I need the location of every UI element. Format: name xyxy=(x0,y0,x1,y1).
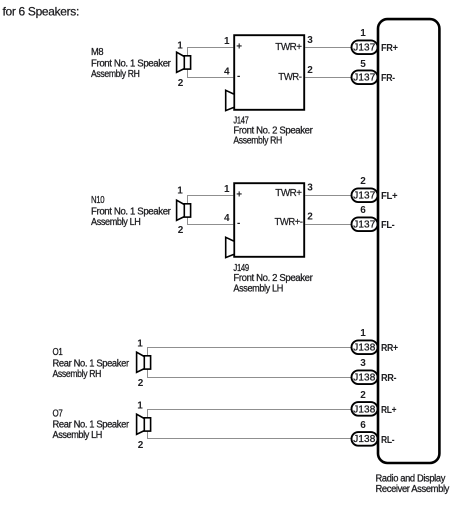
svg-text:1: 1 xyxy=(137,401,143,412)
svg-text:J138: J138 xyxy=(353,342,376,353)
svg-text:3: 3 xyxy=(307,35,313,46)
svg-text:1: 1 xyxy=(224,184,230,195)
svg-text:FL+: FL+ xyxy=(381,191,398,202)
svg-text:1: 1 xyxy=(177,41,183,52)
svg-text:+: + xyxy=(236,42,242,53)
svg-text:M8: M8 xyxy=(91,47,104,58)
svg-text:1: 1 xyxy=(224,36,230,47)
svg-text:J138: J138 xyxy=(353,434,376,445)
svg-text:J137: J137 xyxy=(353,219,376,230)
svg-text:J137: J137 xyxy=(353,72,376,83)
svg-text:J138: J138 xyxy=(353,404,376,415)
svg-text:2: 2 xyxy=(307,65,313,76)
svg-text:+: + xyxy=(236,190,242,201)
svg-text:2: 2 xyxy=(307,211,313,222)
svg-text:4: 4 xyxy=(224,213,230,224)
svg-text:N10: N10 xyxy=(91,195,105,206)
svg-text:Assembly LH: Assembly LH xyxy=(233,284,283,295)
svg-text:2: 2 xyxy=(138,440,144,451)
svg-text:TWR-: TWR- xyxy=(278,72,301,83)
svg-text:1: 1 xyxy=(360,328,366,339)
svg-text:FL-: FL- xyxy=(381,220,394,231)
svg-text:Rear No. 1 Speaker: Rear No. 1 Speaker xyxy=(53,419,130,430)
svg-text:RL-: RL- xyxy=(381,435,394,446)
svg-text:2: 2 xyxy=(178,225,184,236)
svg-text:Receiver Assembly: Receiver Assembly xyxy=(376,484,450,495)
svg-text:for 6 Speakers:: for 6 Speakers: xyxy=(3,5,80,19)
svg-text:FR-: FR- xyxy=(381,73,395,84)
svg-text:Assembly RH: Assembly RH xyxy=(233,136,282,147)
svg-text:J137: J137 xyxy=(353,190,376,201)
svg-text:1: 1 xyxy=(177,186,183,197)
svg-text:6: 6 xyxy=(360,205,366,216)
svg-text:2: 2 xyxy=(360,176,366,187)
svg-text:FR+: FR+ xyxy=(381,43,398,54)
svg-text:J137: J137 xyxy=(353,42,376,53)
svg-text:1: 1 xyxy=(137,339,143,350)
svg-text:3: 3 xyxy=(360,358,366,369)
svg-text:O1: O1 xyxy=(53,347,64,358)
svg-text:5: 5 xyxy=(360,59,366,70)
svg-text:Front No. 1 Speaker: Front No. 1 Speaker xyxy=(91,206,172,217)
svg-text:1: 1 xyxy=(360,28,366,39)
svg-text:O7: O7 xyxy=(53,408,64,419)
svg-text:2: 2 xyxy=(178,78,184,89)
svg-text:Assembly LH: Assembly LH xyxy=(91,217,141,228)
svg-text:Rear No. 1 Speaker: Rear No. 1 Speaker xyxy=(53,358,130,369)
svg-text:TWR+: TWR+ xyxy=(275,188,302,199)
svg-text:-: - xyxy=(237,218,240,229)
svg-text:Front No. 2 Speaker: Front No. 2 Speaker xyxy=(233,273,313,284)
svg-text:6: 6 xyxy=(360,420,366,431)
svg-text:Assembly RH: Assembly RH xyxy=(91,69,140,80)
svg-text:Assembly RH: Assembly RH xyxy=(53,369,102,380)
svg-text:3: 3 xyxy=(307,182,313,193)
svg-text:RR+: RR+ xyxy=(381,343,398,354)
svg-text:Assembly LH: Assembly LH xyxy=(53,430,103,441)
svg-text:RR-: RR- xyxy=(381,373,396,384)
svg-text:Front No. 1 Speaker: Front No. 1 Speaker xyxy=(91,58,172,69)
svg-text:J138: J138 xyxy=(353,372,376,383)
svg-text:RL+: RL+ xyxy=(381,405,397,416)
svg-text:2: 2 xyxy=(138,378,144,389)
svg-text:TWR+: TWR+ xyxy=(275,42,302,53)
svg-text:4: 4 xyxy=(224,66,230,77)
svg-text:2: 2 xyxy=(360,390,366,401)
svg-text:TWR+-: TWR+- xyxy=(275,217,303,228)
svg-text:-: - xyxy=(237,71,240,82)
svg-text:Radio and Display: Radio and Display xyxy=(376,473,446,484)
